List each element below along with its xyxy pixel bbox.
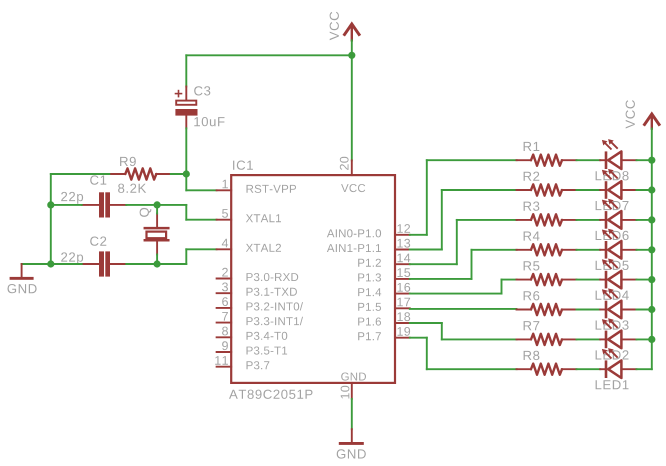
label LED3 <box>596 320 629 329</box>
resistor R4 <box>517 232 577 256</box>
power flag VCC (top) <box>330 12 360 41</box>
junction VCC/pin20 node <box>348 52 355 59</box>
wire VCC rail right <box>651 129 653 370</box>
label LED2 <box>596 350 629 359</box>
capacitor C2 <box>61 237 126 277</box>
wire C2 to crystal <box>126 263 157 265</box>
wire R8 to LED <box>577 368 601 370</box>
label LED8 <box>596 171 629 180</box>
junction C2 node <box>47 260 54 267</box>
junction rail row 4 <box>648 246 655 253</box>
ground GND (bottom) <box>337 429 366 458</box>
resistor R6 <box>517 291 577 315</box>
wire pin19 to R8 <box>410 337 427 339</box>
resistor R9 <box>109 157 171 180</box>
wire LED8 to VCC rail <box>637 159 652 161</box>
wire C3 to node <box>185 128 187 174</box>
wire XTAL2 net <box>157 263 186 265</box>
wire pin12 to R1 <box>410 234 427 236</box>
wire LED6 to VCC rail <box>637 219 652 221</box>
LED LED2 <box>600 318 636 348</box>
junction rail row 5 <box>648 276 655 283</box>
resistor R5 <box>517 261 577 285</box>
wire crystal bottom link <box>156 255 158 265</box>
wire to GND left <box>22 263 51 265</box>
power flag VCC (right) <box>626 100 660 129</box>
label LED1 <box>596 380 629 389</box>
IC IC1 AT89C2051P <box>215 157 410 399</box>
LED LED6 <box>600 199 636 229</box>
resistor R8 <box>517 351 577 375</box>
wire pin10 to GND <box>351 399 353 429</box>
label LED6 <box>596 231 629 240</box>
label 8.2K <box>118 184 146 193</box>
junction C1 node <box>47 201 54 208</box>
resistor R3 <box>517 202 577 226</box>
wire C2 left <box>51 263 82 265</box>
label LED5 <box>596 261 629 270</box>
wire LED1 to VCC rail <box>637 368 652 370</box>
wire pin15 to R4 <box>410 278 472 280</box>
wire pin13 to R2 <box>410 249 442 251</box>
wire R9 left <box>51 173 110 175</box>
wire pin16 to R5 <box>410 293 502 295</box>
junction rail row 2 <box>648 186 655 193</box>
wire pin14 to R3 <box>410 263 457 265</box>
wire left rail <box>50 205 52 264</box>
LED LED3 <box>600 288 636 318</box>
LED LED5 <box>600 229 636 259</box>
wire R7 to LED <box>577 338 601 340</box>
wire R4 to LED <box>577 249 601 251</box>
wire pin1 net <box>185 174 187 190</box>
wire pin18 to R7 <box>410 322 442 324</box>
junction rail row 6 <box>648 306 655 313</box>
wire LED4 to VCC rail <box>637 279 652 281</box>
label LED7 <box>596 201 629 210</box>
junction rail row 1 <box>648 157 655 164</box>
wire VCC net top <box>351 40 353 55</box>
wire R5 to LED <box>577 279 601 281</box>
wire C1 left <box>51 204 82 206</box>
junction R9/C3/pin1 node <box>183 170 190 177</box>
resistor R1 <box>517 142 577 166</box>
wire LED3 to VCC rail <box>637 309 652 311</box>
wire R3 to LED <box>577 219 601 221</box>
capacitor C1 <box>61 175 126 217</box>
label LED4 <box>596 291 629 300</box>
wire XTAL1 net <box>157 204 186 206</box>
LED LED1 <box>600 348 636 378</box>
wire LED7 to VCC rail <box>637 189 652 191</box>
junction rail row 7 <box>648 336 655 343</box>
wire R9 to node <box>171 173 187 175</box>
ground GND (left) <box>8 264 37 293</box>
capacitor C3 <box>175 86 224 128</box>
resistor R7 <box>517 321 577 345</box>
resistor R2 <box>517 172 577 196</box>
wire LED5 to VCC rail <box>637 249 652 251</box>
wire C1 to crystal <box>126 204 157 206</box>
wire R1 to LED <box>577 159 601 161</box>
wire pin17 to R6 <box>410 308 517 310</box>
wire crystal top link <box>156 205 158 214</box>
junction crystal bottom <box>154 260 161 267</box>
LED LED8 <box>600 139 636 169</box>
LED LED4 <box>600 259 636 289</box>
junction rail row 3 <box>648 216 655 223</box>
wire pin20 to VCC <box>351 55 353 160</box>
crystal Q <box>140 208 169 255</box>
wire R2 to LED <box>577 189 601 191</box>
junction crystal top <box>154 201 161 208</box>
wire R6 to LED <box>577 309 601 311</box>
wire LED2 to VCC rail <box>637 338 652 340</box>
LED LED7 <box>600 169 636 199</box>
